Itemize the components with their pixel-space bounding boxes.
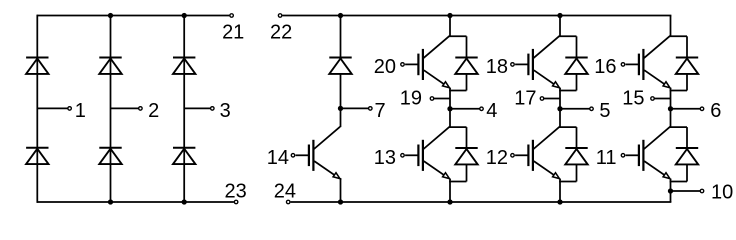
diode D1 (upper rectifier leg 1) (triangle) [26, 59, 48, 74]
diode D8 (top freewheel leg 1) (cathode bar) [455, 57, 477, 59]
transistor Q1 (top IGBT leg 1): gate terminal 20 [401, 63, 405, 67]
transistor Q2 (top IGBT leg 2): gate bar [527, 54, 529, 76]
transistor Q7 (brake IGBT): emitter arrowhead [333, 173, 340, 179]
junction dot phase node leg 2 [557, 106, 562, 111]
wire leg 3 top vertical [670, 16, 672, 37]
wire terminal 3 stub [184, 107, 210, 109]
wire terminal 19 stub [432, 98, 450, 100]
wire terminal 15 stub [653, 98, 671, 100]
diode D7 (brake) (cathode bar) [329, 57, 351, 59]
terminal circle 1 [68, 107, 72, 111]
diode D2 (upper rectifier leg 2) (triangle) [99, 59, 121, 74]
wire leg 2 top diode to emitter [576, 74, 578, 91]
wire leg 1 bottom tee [449, 126, 466, 128]
transistor Q5 (bottom IGBT leg 2): emitter lead [534, 161, 558, 178]
wire terminal 2 stub [111, 107, 139, 109]
terminal circle 19 [430, 97, 434, 101]
wire leg 1 top diode emitter link [449, 90, 466, 92]
terminal circle 24 [286, 200, 290, 204]
wire leg 2 top tee [559, 35, 576, 37]
junction dot bottom rail / leg 2 [108, 199, 113, 204]
wire rectifier leg 2 vertical [110, 15, 112, 203]
junction dot top rail / brake leg [338, 13, 343, 18]
wire Q1 (top IGBT leg 1) gate lead [405, 63, 418, 65]
wire leg 3 bottom diode emitter link [670, 181, 687, 183]
wire Q2 (top IGBT leg 2) gate lead [515, 63, 528, 65]
wire leg 1 top vertical [449, 16, 451, 37]
wire leg 2 bottom diode to emitter [576, 164, 578, 181]
transistor Q7 (brake IGBT): body bar [312, 140, 314, 171]
wire inverter bottom rail (-) [291, 201, 672, 203]
svg-text:5: 5 [599, 100, 610, 122]
svg-text:10: 10 [711, 181, 733, 203]
diode D7 (brake) (triangle) [329, 59, 351, 74]
diode D5 (lower rectifier leg 2) (triangle) [99, 149, 121, 164]
wire Q6 (bottom IGBT leg 3) gate lead [626, 154, 639, 156]
transistor Q2 (top IGBT leg 2): collector lead [534, 36, 560, 58]
transistor Q5 (bottom IGBT leg 2): collector lead [534, 127, 560, 149]
transistor Q1 (top IGBT leg 1): emitter arrowhead [443, 82, 450, 88]
wire leg 1 bottom diode to emitter [466, 164, 468, 181]
terminal circle 6 [700, 107, 704, 111]
transistor Q7 (brake IGBT): emitter lead [314, 161, 338, 178]
transistor Q7 (brake IGBT): gate bar [308, 145, 310, 167]
wire rectifier top rail (+) [37, 15, 229, 17]
transistor Q6 (bottom IGBT leg 3): gate terminal 11 [621, 154, 625, 158]
wire inverter top rail (+) [283, 15, 672, 17]
svg-text:20: 20 [374, 56, 396, 78]
svg-text:1: 1 [75, 100, 86, 122]
transistor Q1 (top IGBT leg 1): collector lead [424, 36, 450, 58]
diode D9 (top freewheel leg 2) (cathode bar) [565, 57, 587, 59]
svg-text:4: 4 [486, 100, 497, 122]
svg-text:21: 21 [222, 21, 244, 43]
terminal circle 3 [211, 107, 215, 111]
wire leg 2 bottom diode emitter link [559, 181, 576, 183]
diode D12 (bottom freewheel leg 2) (triangle) [565, 149, 587, 164]
svg-text:7: 7 [375, 100, 386, 122]
svg-text:11: 11 [596, 147, 617, 169]
diode D9 (top freewheel leg 2) (triangle) [565, 59, 587, 74]
svg-text:12: 12 [486, 147, 508, 169]
wire leg 2 top vertical [559, 16, 561, 37]
transistor Q3 (top IGBT leg 3): body bar [642, 49, 644, 80]
transistor Q4 (bottom IGBT leg 1): gate bar [417, 145, 419, 167]
transistor Q5 (bottom IGBT leg 2): gate bar [527, 145, 529, 167]
transistor Q4 (bottom IGBT leg 1): gate terminal 13 [401, 154, 405, 158]
transistor Q1 (top IGBT leg 1): gate bar [417, 54, 419, 76]
wire terminal 5 stub [560, 108, 590, 110]
transistor Q3 (top IGBT leg 3): emitter lead [644, 70, 668, 87]
wire Q3 (top IGBT leg 3) gate lead [626, 63, 639, 65]
diode D6 (lower rectifier leg 3) (cathode bar) [173, 147, 195, 149]
wire leg 2 top diode branch down [576, 36, 578, 57]
transistor Q2 (top IGBT leg 2): gate terminal 18 [511, 63, 515, 67]
wire leg 3 top diode branch down [686, 36, 688, 57]
transistor Q5 (bottom IGBT leg 2): emitter arrowhead [553, 173, 560, 179]
wire leg 1 bottom diode branch down [466, 127, 468, 148]
wire leg 2 bottom tee [559, 126, 576, 128]
wire terminal 17 stub [542, 98, 560, 100]
svg-text:18: 18 [486, 56, 508, 78]
wire leg 3 bottom tee [670, 126, 687, 128]
transistor Q3 (top IGBT leg 3): emitter arrowhead [663, 82, 670, 88]
transistor Q4 (bottom IGBT leg 1): body bar [422, 140, 424, 171]
svg-text:24: 24 [274, 181, 296, 203]
transistor Q3 (top IGBT leg 3): gate terminal 16 [621, 63, 625, 67]
wire Q5 (bottom IGBT leg 2) gate lead [515, 154, 528, 156]
svg-text:2: 2 [148, 100, 159, 122]
junction dot top rail / leg 2 [108, 13, 113, 18]
transistor Q4 (bottom IGBT leg 1): collector lead [424, 127, 450, 149]
wire leg 2 mid vertical [559, 109, 561, 127]
transistor Q4 (bottom IGBT leg 1): emitter arrowhead [443, 173, 450, 179]
junction dot bottom rail / leg 1 [447, 199, 452, 204]
svg-text:15: 15 [622, 88, 644, 110]
wire leg 1 bottom diode emitter link [449, 181, 466, 183]
wire leg 1 Q1 emitter vertical [449, 88, 451, 109]
diode D8 (top freewheel leg 1) (triangle) [455, 59, 477, 74]
wire leg 3 emitter to bottom rail [670, 179, 672, 203]
svg-text:16: 16 [594, 56, 616, 78]
terminal circle 23 [234, 200, 238, 204]
diode D10 (top freewheel leg 3) (triangle) [676, 59, 698, 74]
transistor Q2 (top IGBT leg 2): emitter arrowhead [553, 82, 560, 88]
wire leg 3 mid vertical [670, 109, 672, 127]
terminal circle 21 [230, 14, 234, 18]
transistor Q6 (bottom IGBT leg 3): body bar [642, 140, 644, 171]
svg-text:22: 22 [270, 21, 292, 43]
terminal circle 10 [700, 189, 704, 193]
junction dot bottom rail / brake leg [338, 199, 343, 204]
diode D4 (lower rectifier leg 1) (triangle) [26, 149, 48, 164]
svg-text:19: 19 [400, 88, 422, 110]
terminal circle 17 [540, 97, 544, 101]
terminal circle 15 [651, 97, 655, 101]
wire terminal 6 stub [671, 108, 701, 110]
transistor Q3 (top IGBT leg 3): collector lead [644, 36, 670, 58]
diode D5 (lower rectifier leg 2) (cathode bar) [99, 147, 121, 149]
transistor Q2 (top IGBT leg 2): emitter lead [534, 70, 558, 87]
wire Q7 (brake IGBT) gate lead [296, 154, 309, 156]
junction dot bottom rail / leg 2 [557, 199, 562, 204]
wire rectifier leg 1 vertical [36, 15, 38, 203]
wire leg 2 Q2 emitter vertical [559, 88, 561, 109]
wire leg 3 top diode to emitter [686, 74, 688, 91]
wire rectifier leg 3 vertical [183, 15, 185, 203]
wire leg 3 bottom diode to emitter [686, 164, 688, 181]
transistor Q1 (top IGBT leg 1): emitter lead [424, 70, 448, 87]
transistor Q5 (bottom IGBT leg 2): gate terminal 12 [511, 154, 515, 158]
wire Q7 emitter to bottom rail [340, 178, 342, 202]
diode D3 (upper rectifier leg 3) (triangle) [173, 59, 195, 74]
wire brake diode to node 7 [340, 74, 342, 109]
diode D11 (bottom freewheel leg 1) (triangle) [455, 149, 477, 164]
junction dot top rail / leg 3 [182, 13, 187, 18]
wire leg 3 Q3 emitter vertical [670, 88, 672, 109]
diode D2 (upper rectifier leg 2) (cathode bar) [99, 57, 121, 59]
wire leg 3 bottom diode branch down [686, 127, 688, 148]
transistor Q6 (bottom IGBT leg 3): emitter lead [644, 161, 668, 178]
transistor Q6 (bottom IGBT leg 3): gate bar [638, 145, 640, 167]
wire leg 2 top diode emitter link [559, 90, 576, 92]
wire leg 3 top tee [670, 35, 687, 37]
terminal circle 22 [278, 14, 282, 18]
diode D6 (lower rectifier leg 3) (triangle) [173, 149, 195, 164]
transistor Q6 (bottom IGBT leg 3): emitter arrowhead [663, 173, 670, 179]
transistor Q4 (bottom IGBT leg 1): emitter lead [424, 161, 448, 178]
junction dot node 7 [338, 106, 343, 111]
junction dot phase node leg 3 [668, 106, 673, 111]
diode D12 (bottom freewheel leg 2) (cathode bar) [565, 147, 587, 149]
diode D13 (bottom freewheel leg 3) (triangle) [676, 149, 698, 164]
junction dot terminal 10 node [668, 188, 673, 193]
transistor Q5 (bottom IGBT leg 2): body bar [532, 140, 534, 171]
svg-text:14: 14 [267, 147, 289, 169]
wire leg 1 top tee [449, 35, 466, 37]
wire terminal 4 stub [450, 108, 480, 110]
wire leg 1 top diode to emitter [466, 74, 468, 91]
wire terminal 7 stub [341, 107, 369, 109]
wire leg 2 bottom diode branch down [576, 127, 578, 148]
transistor Q1 (top IGBT leg 1): body bar [422, 49, 424, 80]
transistor Q3 (top IGBT leg 3): gate bar [638, 54, 640, 76]
svg-text:6: 6 [710, 100, 721, 122]
terminal circle 4 [480, 107, 484, 111]
transistor Q2 (top IGBT leg 2): body bar [532, 49, 534, 80]
transistor Q6 (bottom IGBT leg 3): collector lead [644, 127, 670, 149]
wire Q4 (bottom IGBT leg 1) gate lead [405, 154, 418, 156]
junction dot phase node leg 1 [447, 106, 452, 111]
diode D11 (bottom freewheel leg 1) (cathode bar) [455, 147, 477, 149]
svg-text:23: 23 [224, 181, 246, 203]
wire leg 1 top diode branch down [466, 36, 468, 57]
wire leg 2 emitter to bottom rail [559, 179, 561, 203]
transistor Q7 (brake IGBT): gate terminal 14 [291, 154, 295, 158]
terminal circle 2 [139, 107, 143, 111]
wire brake leg upper vertical [340, 16, 342, 58]
svg-text:3: 3 [220, 100, 231, 122]
junction dot top rail / inverter leg 1 [447, 13, 452, 18]
svg-text:13: 13 [374, 147, 396, 169]
diode D1 (upper rectifier leg 1) (cathode bar) [26, 57, 48, 59]
diode D13 (bottom freewheel leg 3) (cathode bar) [676, 147, 698, 149]
svg-text:17: 17 [514, 88, 536, 110]
transistor Q7 (brake IGBT): collector lead [314, 127, 340, 149]
terminal circle 5 [590, 107, 594, 111]
wire leg 1 emitter to bottom rail [449, 179, 451, 203]
junction dot top rail / inverter leg 2 [557, 13, 562, 18]
wire leg 3 top diode emitter link [670, 90, 687, 92]
diode D3 (upper rectifier leg 3) (cathode bar) [173, 57, 195, 59]
wire terminal 10 stub [671, 190, 701, 192]
wire leg 1 mid vertical [449, 109, 451, 127]
terminal circle 7 [369, 107, 373, 111]
wire rectifier bottom rail (-) [37, 201, 234, 203]
diode D10 (top freewheel leg 3) (cathode bar) [676, 57, 698, 59]
wire terminal 1 stub [37, 107, 67, 109]
wire node 7 to Q7 collector [340, 108, 342, 127]
junction dot bottom rail / leg 3 [182, 199, 187, 204]
diode D4 (lower rectifier leg 1) (cathode bar) [26, 147, 48, 149]
